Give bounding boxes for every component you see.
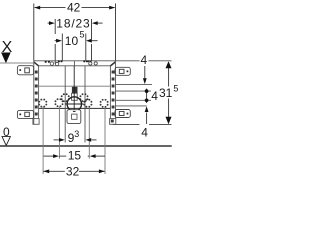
svg-text:32: 32 [66,164,80,178]
svg-text:4: 4 [141,53,148,67]
svg-text:4: 4 [141,125,148,139]
svg-text:18/23: 18/23 [56,16,90,30]
svg-text:4: 4 [151,89,158,103]
svg-text:15: 15 [68,149,82,163]
svg-text:42: 42 [67,1,81,15]
